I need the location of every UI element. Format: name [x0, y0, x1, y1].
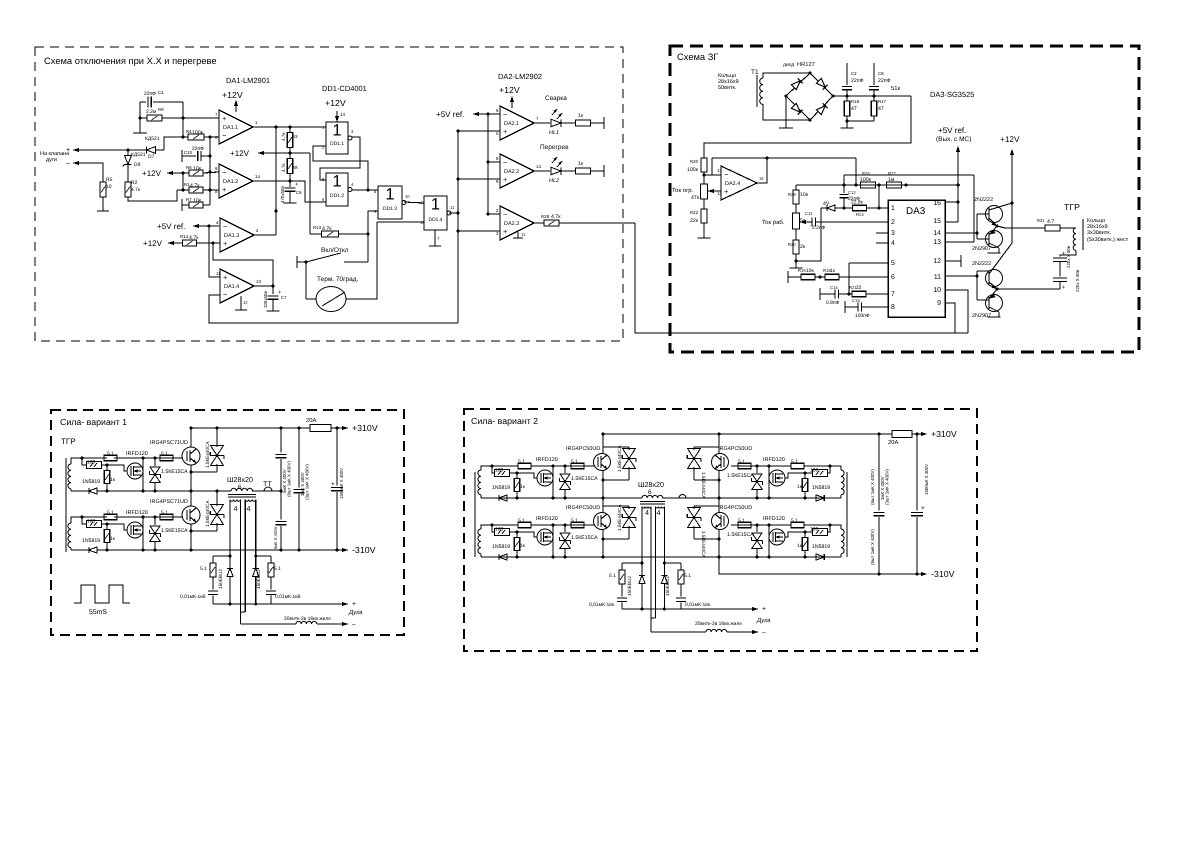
- branch 100 D3: [827, 466, 830, 473]
- svg-text:10: 10: [405, 194, 410, 199]
- svg-text:16: 16: [933, 200, 941, 207]
- svg-text:1N5819: 1N5819: [492, 544, 510, 550]
- svg-text:5: 5: [891, 260, 895, 267]
- svg-text:1.5КЕ440СА: 1.5КЕ440СА: [205, 500, 210, 527]
- TVS440 bottom wire: [191, 471, 217, 473]
- svg-text:ТГР: ТГР: [61, 437, 76, 446]
- svg-text:(8шт 1мК Х 400V): (8шт 1мК Х 400V): [287, 461, 292, 497]
- svg-text:+12V: +12V: [143, 239, 163, 248]
- branch to 100 resistor: [82, 458, 87, 465]
- svg-text:1500мК Х 400V: 1500мК Х 400V: [924, 464, 929, 495]
- svg-text:10к: 10к: [193, 166, 202, 172]
- wire C4 left to ground: [139, 102, 141, 133]
- svg-text:5мК Х 400V: 5мК Х 400V: [273, 526, 278, 549]
- terminal bar pin8: [844, 301, 846, 313]
- svg-text:470х50в: 470х50в: [280, 186, 285, 203]
- svg-text:220х Х 50в: 220х Х 50в: [1066, 245, 1071, 268]
- capacitor column 5mK lower: [276, 520, 287, 522]
- svg-text:IRG4PSC71UD: IRG4PSC71UD: [150, 440, 188, 446]
- svg-text:+12V: +12V: [230, 149, 250, 158]
- bus + inputs DA2: [457, 131, 459, 323]
- svg-text:11: 11: [450, 205, 455, 210]
- svg-text:5.1: 5.1: [571, 518, 578, 524]
- svg-text:Перегрев: Перегрев: [540, 144, 569, 151]
- svg-text:диод: диод: [783, 63, 794, 68]
- mosfet vertical D3: [768, 466, 770, 498]
- svg-text:5.1: 5.1: [161, 510, 168, 516]
- svg-text:DD1.3: DD1.3: [383, 206, 397, 212]
- gate row D1: [531, 465, 594, 467]
- ground: [97, 210, 109, 212]
- wire pin5 to pin7 node: [848, 263, 850, 294]
- svg-text:C6: C6: [296, 190, 302, 195]
- svg-text:–: –: [352, 621, 356, 628]
- wire pin5: [849, 262, 888, 264]
- TGR winding 1: [68, 464, 71, 489]
- svg-text:2N2222: 2N2222: [972, 261, 991, 267]
- IGBT D3 collector: [718, 434, 720, 454]
- wire to mosfet gate c2: [107, 524, 127, 530]
- node bus left of DA1.2: [209, 137, 211, 205]
- wire DA2.4 output feedback: [757, 158, 767, 183]
- winding2 bottom lead: [70, 548, 72, 550]
- wire pin14 to driver bases: [945, 232, 977, 234]
- wire TGR to caps: [1060, 250, 1076, 256]
- wire winding1 top to gate row: [71, 458, 107, 464]
- svg-text:10: 10: [106, 184, 112, 190]
- svg-text:50витк.: 50витк.: [718, 85, 737, 91]
- wire feedback node: [182, 102, 184, 137]
- svg-text:DA1-LM2901: DA1-LM2901: [226, 76, 270, 85]
- svg-text:R17: R17: [878, 99, 887, 104]
- ground under divider: [698, 237, 711, 239]
- op-amp DA1.3: [220, 218, 254, 252]
- transformer T1 winding: [756, 75, 758, 107]
- svg-text:100к: 100к: [687, 167, 699, 173]
- svg-text:DA3-SG3525: DA3-SG3525: [930, 90, 974, 99]
- terminal bar HL1: [603, 117, 605, 129]
- wire pin2 row: [800, 221, 812, 223]
- wire +5Vref to DA1.4 +: [209, 226, 220, 277]
- wire control to ZG block: [635, 223, 968, 333]
- junction rows D: [622, 562, 642, 564]
- secondary center tap D: [650, 507, 652, 633]
- ground under caps: [846, 121, 848, 128]
- svg-text:IRG4PC50UD: IRG4PC50UD: [566, 446, 600, 452]
- svg-text:ТГР: ТГР: [1064, 202, 1080, 212]
- branch to 100 resistor 2: [82, 517, 87, 524]
- wire caps common: [847, 120, 874, 122]
- svg-text:DA2.1: DA2.1: [504, 121, 519, 127]
- svg-text:+: +: [503, 227, 507, 236]
- svg-text:0,01мК-1кВ: 0,01мК-1кВ: [275, 594, 301, 600]
- wire divider to pin1: [878, 185, 880, 208]
- svg-text:−: −: [724, 170, 728, 179]
- winding D2: [478, 529, 481, 554]
- svg-text:22: 22: [856, 285, 862, 291]
- wire DA1.2 output: [253, 180, 290, 182]
- svg-text:C8: C8: [878, 71, 884, 76]
- wire pin16 to Vref: [945, 201, 958, 203]
- svg-text:220х Х 50в: 220х Х 50в: [1075, 269, 1080, 292]
- svg-text:13: 13: [256, 279, 261, 284]
- waveform square: [74, 585, 130, 603]
- ground stub DA1.4: [240, 296, 242, 310]
- svg-text:1N5819: 1N5819: [812, 485, 830, 491]
- svg-text:R20: R20: [690, 159, 699, 164]
- svg-text:11: 11: [934, 274, 941, 281]
- svg-text:+: +: [66, 146, 70, 154]
- wire pin9 to bottom rail: [945, 303, 955, 333]
- TVS440 D3 bottom: [694, 479, 719, 481]
- svg-text:IRFD120: IRFD120: [763, 516, 785, 522]
- TVS440 D1 bottom: [603, 479, 629, 481]
- wire DD1.3 lower input: [368, 211, 378, 234]
- wire pin4 stub: [876, 242, 888, 244]
- svg-text:IRFD120: IRFD120: [536, 516, 558, 522]
- wire T1 to bridge bottom: [763, 104, 810, 120]
- svg-text:+: +: [223, 273, 227, 282]
- mid rail right of IGBT: [719, 497, 841, 499]
- svg-text:C7: C7: [281, 295, 287, 300]
- svg-text:22пФ: 22пФ: [144, 91, 156, 97]
- svg-text:+5V ref.: +5V ref.: [436, 110, 464, 119]
- svg-text:12: 12: [243, 300, 248, 305]
- svg-text:(8шт 1мК Х 400V): (8шт 1мК Х 400V): [870, 529, 875, 565]
- svg-text:Сила- вариант 2: Сила- вариант 2: [471, 416, 538, 426]
- TGR core bar: [1082, 219, 1084, 250]
- svg-text:4: 4: [645, 509, 649, 517]
- svg-text:+5V ref.: +5V ref.: [157, 222, 185, 231]
- wire +12V to R1: [182, 173, 184, 190]
- svg-text:15: 15: [933, 218, 941, 225]
- wire zener to ground chain: [796, 208, 821, 261]
- svg-text:IRG4PSC71UD: IRG4PSC71UD: [150, 499, 188, 505]
- svg-text:11: 11: [521, 232, 526, 237]
- svg-text:20А: 20А: [306, 417, 317, 424]
- mid rail: [107, 490, 231, 492]
- winding D3 bottom: [840, 495, 842, 498]
- top rail y175: [844, 174, 974, 176]
- winding D1 bottom: [480, 495, 482, 498]
- svg-text:C10: C10: [184, 150, 193, 155]
- svg-text:(3шт 1мК Х 400V): (3шт 1мК Х 400V): [885, 469, 890, 505]
- svg-text:5.1: 5.1: [738, 518, 745, 524]
- svg-text:5.1: 5.1: [161, 451, 168, 457]
- svg-text:Схема ЗГ: Схема ЗГ: [677, 52, 718, 62]
- svg-text:1к: 1к: [110, 536, 116, 542]
- bridge bottom rail D: [481, 556, 841, 558]
- wire to mosfet gate: [107, 465, 127, 471]
- svg-text:1к: 1к: [520, 484, 526, 490]
- IGBT2 emitter: [190, 524, 192, 550]
- svg-text:+12V: +12V: [222, 90, 243, 100]
- wire D2 top: [481, 525, 518, 529]
- svg-text:4.7к: 4.7к: [131, 187, 141, 193]
- wire pin3 stub: [876, 232, 888, 234]
- wire bridge output: [833, 95, 911, 97]
- wire DD1.3 out to DD1.4: [404, 202, 424, 203]
- wire T1 to bridge top: [763, 73, 810, 78]
- TGR winding 2: [68, 523, 71, 548]
- svg-text:Терм. 70град.: Терм. 70град.: [317, 276, 359, 283]
- core lines D: [640, 501, 665, 503]
- svg-text:5.1: 5.1: [791, 518, 798, 524]
- svg-text:IRG4PC50UD: IRG4PC50UD: [566, 505, 600, 511]
- wire to DA2.4 -: [704, 174, 721, 176]
- wire +12V to Q1 collector: [1011, 150, 1013, 243]
- svg-text:3х30витк.: 3х30витк.: [1087, 230, 1112, 236]
- svg-text:22пФ: 22пФ: [878, 78, 891, 84]
- svg-text:DA2.4: DA2.4: [725, 181, 740, 187]
- svg-text:C2: C2: [851, 71, 857, 76]
- wire - terminal: [73, 163, 103, 182]
- svg-text:–: –: [66, 159, 70, 167]
- svg-text:+: +: [503, 175, 507, 184]
- svg-text:0,01мК-1кВ: 0,01мК-1кВ: [180, 594, 206, 600]
- svg-text:2N2907: 2N2907: [972, 246, 991, 252]
- secondary winding right: [245, 500, 256, 502]
- ground at bridge: [785, 96, 787, 128]
- svg-text:+: +: [295, 182, 299, 188]
- svg-text:+: +: [352, 601, 356, 608]
- svg-text:R14: R14: [180, 234, 189, 239]
- svg-text:1.5КЕ440СА: 1.5КЕ440СА: [617, 504, 622, 531]
- wire thermostat left: [306, 298, 316, 300]
- svg-text:0,01мК-1кв: 0,01мК-1кв: [589, 602, 614, 608]
- svg-text:КД521: КД521: [145, 136, 160, 142]
- terminal bar HL2: [603, 165, 605, 177]
- wire winding2 top to gate row: [71, 517, 107, 523]
- svg-text:22.8к: 22.8к: [851, 200, 864, 206]
- TVS440 D4 bottom: [694, 538, 719, 540]
- base bus Q1 Q2: [976, 214, 978, 239]
- wire pin15 to Vref: [945, 221, 958, 223]
- svg-text:R22: R22: [690, 210, 699, 215]
- svg-text:R30: R30: [788, 242, 796, 247]
- svg-text:1.5КЕ15СА: 1.5КЕ15СА: [727, 532, 754, 538]
- wire DA2.3 output: [533, 222, 544, 224]
- mosfet vertical D4: [768, 525, 770, 557]
- wire DA1.1 output: [253, 126, 326, 128]
- svg-text:DA3: DA3: [906, 206, 926, 217]
- svg-text:47: 47: [878, 106, 884, 112]
- secondary winding left: [230, 500, 241, 502]
- IC DA3 SG3525: [888, 200, 945, 317]
- svg-text:−: −: [223, 290, 227, 299]
- wire DD1.2 latch feedback: [313, 146, 368, 190]
- node after 100: [101, 464, 107, 466]
- svg-text:1N5819: 1N5819: [82, 538, 100, 544]
- primary winding D: [642, 495, 663, 498]
- svg-text:(8шт 1мК Х 400V): (8шт 1мК Х 400V): [870, 469, 875, 505]
- svg-text:8: 8: [891, 304, 895, 311]
- svg-text:(5х30витк.) жест: (5х30витк.) жест: [1087, 237, 1129, 243]
- capacitor 1500uF D: [916, 434, 918, 510]
- svg-text:D7: D7: [148, 154, 155, 160]
- svg-text:DA1.3: DA1.3: [224, 233, 239, 239]
- svg-text:C11: C11: [805, 211, 813, 216]
- secondary center tap leads: [240, 500, 242, 625]
- wire bus to DA2.3 +: [458, 230, 500, 232]
- svg-text:−: −: [222, 131, 226, 140]
- svg-text:R26: R26: [862, 171, 870, 176]
- wire latch input from switch: [367, 234, 369, 262]
- svg-text:20витк-2в 16кв.жиле: 20витк-2в 16кв.жиле: [695, 621, 742, 627]
- svg-text:−: −: [222, 168, 226, 177]
- op-amp DA2.1: [500, 106, 534, 140]
- IGBT D4 collector: [718, 498, 720, 513]
- base bus Q3 Q4: [976, 271, 978, 300]
- svg-text:R31: R31: [1037, 218, 1045, 223]
- IGBT D3 emitter: [718, 470, 720, 498]
- wire D4 top: [804, 525, 841, 529]
- svg-text:14: 14: [759, 176, 764, 181]
- svg-text:1.5КЕ15СА: 1.5КЕ15СА: [571, 476, 598, 482]
- wire thermostat right to DD1.4: [346, 222, 377, 299]
- wire DD1.4 lower input: [377, 221, 424, 223]
- svg-text:14: 14: [255, 174, 260, 179]
- svg-text:Сила- вариант 1: Сила- вариант 1: [60, 417, 127, 427]
- svg-text:20А: 20А: [888, 439, 899, 446]
- wire DA2.2 output: [533, 170, 550, 172]
- svg-text:47к: 47к: [691, 195, 700, 201]
- IGBT D2 collector: [602, 498, 604, 513]
- gate row D2: [531, 524, 594, 526]
- svg-text:R24: R24: [856, 212, 864, 217]
- wire bus to DA2.2 +: [458, 178, 500, 180]
- wire R13 up to +12V row: [309, 153, 311, 234]
- svg-text:+: +: [762, 606, 766, 613]
- svg-text:HL2: HL2: [549, 178, 559, 184]
- svg-text:DA2.3: DA2.3: [504, 221, 519, 227]
- svg-text:12: 12: [933, 258, 941, 265]
- wire DA1.3 output: [254, 234, 276, 236]
- wire TGR return: [997, 288, 1060, 290]
- svg-text:+12V: +12V: [142, 169, 162, 178]
- svg-text:10к: 10к: [193, 198, 202, 204]
- secondary left lead D: [641, 507, 643, 564]
- NOR gate DD1.2: [326, 173, 348, 206]
- svg-text:+12V: +12V: [1000, 135, 1020, 144]
- svg-text:+: +: [503, 127, 507, 136]
- block border: Схема отключения при Х.Х и перегреве: [35, 47, 623, 341]
- op-amp DA1.1: [219, 110, 253, 144]
- svg-text:R27: R27: [888, 171, 896, 176]
- svg-text:Ток огр.: Ток огр.: [672, 187, 694, 194]
- mosfet vertical D2: [552, 525, 554, 557]
- wire DA1.4 - input to bottom bus: [209, 295, 458, 323]
- IGBT D2 emitter: [602, 529, 604, 557]
- svg-text:5.1: 5.1: [274, 566, 281, 572]
- feedback wire y158: [712, 157, 856, 159]
- svg-text:1500мК Х 400V: 1500мК Х 400V: [339, 468, 344, 499]
- bridge rectifier diodes: [786, 73, 810, 96]
- svg-text:5.1: 5.1: [107, 451, 114, 457]
- svg-text:−: −: [223, 222, 227, 231]
- svg-text:7: 7: [891, 291, 895, 298]
- gate row cluster1: [114, 457, 183, 459]
- feedback loop DA1.4 to DA1.3: [213, 243, 273, 286]
- winding D4 bottom: [840, 554, 842, 557]
- svg-text:4.7: 4.7: [1047, 219, 1054, 225]
- svg-text:R7: R7: [186, 197, 192, 202]
- +310V rail D: [603, 433, 892, 435]
- svg-text:IRFD120: IRFD120: [126, 510, 148, 516]
- svg-text:5.1: 5.1: [518, 459, 525, 465]
- branch 100 D4: [827, 525, 830, 532]
- svg-text:DA1.1: DA1.1: [223, 125, 238, 131]
- svg-text:1.5КЕ15СА: 1.5КЕ15СА: [727, 473, 754, 479]
- svg-text:4: 4: [234, 505, 238, 513]
- wire to ground: [102, 197, 104, 211]
- TT bump: [264, 487, 272, 491]
- NOR gate DD1.1: [326, 122, 348, 154]
- svg-text:1к: 1к: [578, 113, 584, 119]
- svg-text:1N5819: 1N5819: [82, 479, 100, 485]
- svg-text:Схема отключения при Х.Х и пер: Схема отключения при Х.Х и перегреве: [44, 56, 217, 66]
- svg-text:IRFD120: IRFD120: [536, 457, 558, 463]
- svg-text:Дуга: Дуга: [756, 617, 771, 624]
- svg-text:150EBU2: 150EBU2: [627, 576, 632, 596]
- wire DD1.1 out to latch: [320, 137, 360, 180]
- svg-text:IRG4PC50UD: IRG4PC50UD: [718, 505, 752, 511]
- svg-text:14: 14: [536, 164, 541, 169]
- TVS440-2 bottom wire: [191, 530, 217, 532]
- svg-text:C12: C12: [848, 190, 856, 195]
- svg-text:2N2222: 2N2222: [974, 197, 993, 203]
- mosfet drain-source vertical: [142, 458, 144, 491]
- svg-text:1к: 1к: [578, 161, 584, 167]
- svg-text:DA2-LM2902: DA2-LM2902: [498, 72, 542, 81]
- svg-text:−: −: [503, 210, 507, 219]
- svg-text:1: 1: [332, 173, 341, 191]
- svg-text:R29: R29: [788, 192, 796, 197]
- svg-text:1к: 1к: [110, 477, 116, 483]
- primary winding: [231, 488, 253, 491]
- core lines: [228, 494, 256, 496]
- svg-text:2.2м: 2.2м: [146, 109, 157, 115]
- svg-text:4.7к: 4.7к: [281, 132, 286, 141]
- svg-text:4: 4: [657, 509, 661, 517]
- op-amp DA2.2: [500, 154, 534, 188]
- svg-text:+12V: +12V: [325, 98, 346, 108]
- ground under R9: [133, 132, 147, 134]
- svg-text:IRFD120: IRFD120: [126, 451, 148, 457]
- gate row cluster2: [114, 516, 183, 518]
- wire pin13 to top rail: [945, 241, 974, 243]
- svg-text:5.1: 5.1: [738, 459, 745, 465]
- svg-text:100к: 100к: [192, 130, 204, 136]
- IGBT D1 emitter: [602, 470, 604, 498]
- svg-text:R5: R5: [106, 177, 113, 183]
- svg-text:+: +: [223, 239, 227, 248]
- svg-text:T1: T1: [751, 69, 759, 76]
- svg-text:4.7к: 4.7к: [281, 163, 286, 172]
- capacitor column 5mK upper: [280, 428, 282, 452]
- node after 100 c2: [101, 523, 107, 525]
- wire switch to thermostat: [305, 262, 307, 299]
- svg-text:HR127: HR127: [797, 62, 815, 68]
- winding D1: [478, 470, 481, 495]
- svg-text:C4: C4: [158, 90, 164, 95]
- op-amp DA2.3: [500, 206, 534, 240]
- svg-text:22пФ: 22пФ: [851, 78, 864, 84]
- op-amp DA1.2: [219, 164, 253, 198]
- wire DA1.4 output: [254, 285, 273, 287]
- svg-text:D9: D9: [134, 162, 141, 168]
- svg-text:47: 47: [851, 106, 857, 112]
